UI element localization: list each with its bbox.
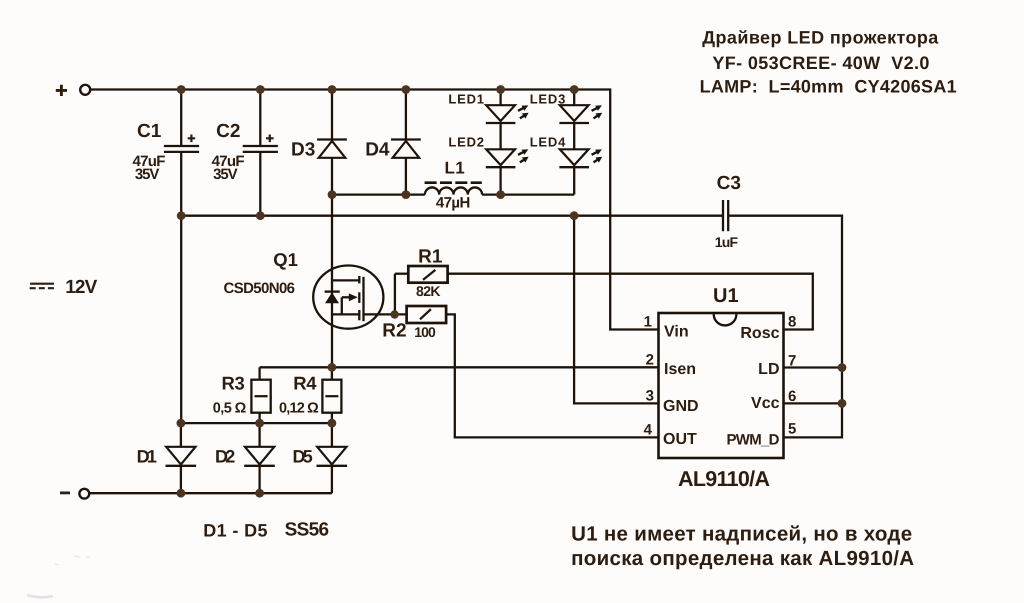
svg-text:U1: U1 — [713, 285, 739, 307]
svg-text:8: 8 — [788, 314, 796, 331]
svg-text:7: 7 — [788, 353, 796, 370]
svg-text:LD: LD — [758, 361, 779, 378]
svg-text:PWM_D: PWM_D — [727, 432, 780, 449]
svg-text:C3: C3 — [717, 173, 741, 194]
svg-text:C1: C1 — [137, 121, 162, 142]
svg-text:Rosc: Rosc — [740, 325, 779, 342]
svg-text:35V: 35V — [135, 166, 160, 183]
svg-text:6: 6 — [788, 388, 796, 405]
svg-text:Vcc: Vcc — [751, 395, 780, 412]
svg-text:SS56: SS56 — [285, 519, 330, 540]
svg-text:OUT: OUT — [663, 431, 697, 448]
svg-text:2: 2 — [646, 352, 654, 369]
svg-text:D3: D3 — [291, 139, 315, 160]
svg-text:D1: D1 — [137, 446, 157, 466]
svg-text:Isen: Isen — [664, 361, 696, 378]
svg-text:C2: C2 — [216, 121, 240, 142]
svg-text:Vin: Vin — [664, 324, 689, 341]
svg-text:Драйвер LED прожектора: Драйвер LED прожектора — [702, 28, 939, 48]
svg-text:L1: L1 — [445, 159, 465, 178]
svg-text:LED4: LED4 — [530, 134, 566, 149]
svg-text:5: 5 — [788, 421, 796, 438]
svg-text:D5: D5 — [293, 446, 313, 466]
svg-text:R1: R1 — [418, 247, 443, 268]
svg-text:35V: 35V — [213, 166, 238, 183]
svg-text:LED1: LED1 — [448, 91, 484, 106]
svg-text:4: 4 — [644, 422, 653, 439]
svg-text:YF- 053CREE- 40W V2.0: YF- 053CREE- 40W V2.0 — [712, 53, 929, 73]
svg-text:R2: R2 — [382, 321, 406, 342]
svg-text:CSD50N06: CSD50N06 — [224, 280, 296, 297]
svg-text:1uF: 1uF — [715, 234, 739, 250]
svg-text:1: 1 — [644, 314, 652, 331]
svg-text:D2: D2 — [215, 446, 235, 466]
svg-text:AL9110/A: AL9110/A — [678, 467, 770, 491]
svg-text:100: 100 — [414, 324, 436, 340]
svg-text:GND: GND — [663, 398, 699, 415]
svg-text:R4: R4 — [293, 373, 317, 394]
svg-text:0,5 Ω: 0,5 Ω — [213, 400, 247, 416]
svg-text:Q1: Q1 — [273, 249, 298, 270]
svg-text:LED3: LED3 — [530, 91, 566, 106]
svg-text:12V: 12V — [65, 277, 97, 298]
svg-text:D4: D4 — [365, 139, 390, 160]
svg-text:LED2: LED2 — [448, 134, 484, 149]
svg-text:3: 3 — [646, 388, 654, 405]
svg-text:LAMP: L=40mm CY4206SA1: LAMP: L=40mm CY4206SA1 — [700, 77, 957, 97]
svg-text:47µH: 47µH — [436, 195, 470, 212]
svg-text:D1 - D5: D1 - D5 — [203, 520, 267, 540]
svg-text:82K: 82K — [416, 283, 441, 299]
svg-text:R3: R3 — [222, 373, 245, 394]
svg-text:U1 не имеет надписей, но в ход: U1 не имеет надписей, но в ходе — [571, 523, 912, 546]
svg-text:поиска определена как AL9910/A: поиска определена как AL9910/A — [571, 547, 914, 570]
svg-text:0,12 Ω: 0,12 Ω — [279, 400, 319, 416]
